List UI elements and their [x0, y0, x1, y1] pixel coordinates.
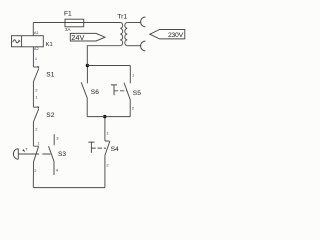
- svg-text:S1: S1: [46, 71, 54, 78]
- S3 mushroom actuator: [13, 149, 18, 160]
- switch S3 pole 2: [49, 134, 55, 175]
- switch S2 relay contact arrow: [33, 106, 37, 108]
- node junction dot bottom: [103, 115, 106, 118]
- svg-text:K1: K1: [46, 42, 53, 48]
- svg-text:S5: S5: [133, 90, 141, 97]
- wire Tr1 primary bottom lead: [127, 45, 141, 47]
- svg-text:1: 1: [37, 140, 40, 145]
- connector hook bottom: [141, 41, 146, 51]
- svg-text:S4: S4: [111, 146, 119, 153]
- wire S4 to junction: [104, 117, 106, 141]
- switch S1 relay contact arrow: [33, 66, 37, 68]
- svg-text:A2: A2: [34, 46, 40, 51]
- net flag 24V: [70, 33, 105, 41]
- S3 actuator link: [18, 153, 50, 155]
- svg-text:T: T: [25, 146, 28, 151]
- svg-text:S2: S2: [46, 112, 54, 119]
- svg-text:2: 2: [132, 105, 135, 110]
- wire top rail of S6 S5 block: [87, 65, 130, 67]
- transformer Tr1 left winding: [120, 23, 123, 46]
- S3 actuator arrow and T: [22, 149, 25, 152]
- switch S6: [81, 66, 87, 117]
- wire Tr1 primary top lead: [127, 22, 141, 24]
- node junction dot top: [86, 64, 89, 67]
- svg-text:1: 1: [35, 94, 38, 99]
- svg-text:F1: F1: [64, 11, 72, 18]
- svg-text:2: 2: [106, 162, 109, 167]
- wire top rail from K1 riser through fuse to transformer: [33, 22, 120, 24]
- fuse F1: [65, 19, 84, 27]
- wire riser to S4: [104, 155, 106, 187]
- svg-text:1: 1: [35, 56, 38, 61]
- svg-text:3A: 3A: [65, 27, 70, 32]
- svg-text:3: 3: [56, 135, 59, 140]
- net flag 230V: [150, 30, 185, 39]
- connector hook top: [141, 17, 146, 27]
- svg-text:1: 1: [106, 130, 109, 135]
- svg-text:4: 4: [56, 167, 59, 172]
- svg-text:A1: A1: [34, 30, 40, 35]
- relay coil K1: [12, 36, 44, 47]
- wire junction to transformer secondary bottom: [87, 46, 120, 66]
- bottom rail wire: [33, 187, 105, 189]
- wire bottom rail of S6 S5 block: [87, 116, 130, 118]
- transformer Tr1 right winding: [125, 23, 128, 46]
- svg-text:24V: 24V: [71, 33, 84, 42]
- S5 actuator T with dashed link: [111, 85, 117, 95]
- switch S4: [105, 141, 110, 155]
- switch S5: [124, 66, 130, 117]
- svg-text:S3: S3: [58, 151, 66, 158]
- svg-text:2: 2: [35, 126, 38, 131]
- svg-text:2: 2: [35, 88, 38, 93]
- wire K1 to S1: [32, 47, 34, 67]
- wire S1 to S2: [32, 82, 34, 107]
- svg-text:230V: 230V: [168, 32, 184, 39]
- svg-text:S6: S6: [91, 89, 99, 96]
- wire S2 to S3: [32, 122, 34, 146]
- svg-text:1: 1: [132, 73, 135, 78]
- S4 actuator T with dashed link: [88, 142, 94, 153]
- wire K1 riser: [32, 23, 34, 36]
- svg-text:Tr1: Tr1: [117, 13, 127, 20]
- svg-text:2: 2: [34, 168, 37, 173]
- switch S3 pole 1: [33, 146, 38, 187]
